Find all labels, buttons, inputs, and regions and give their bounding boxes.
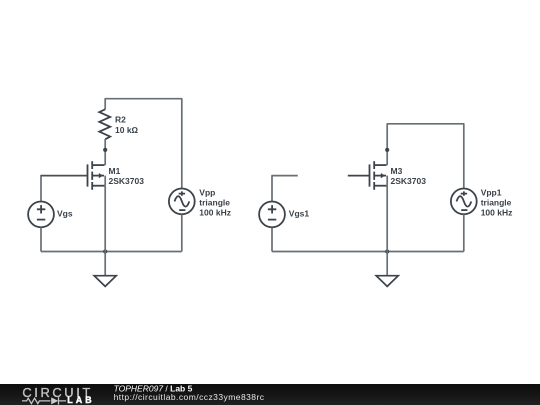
node dot on M1 drain wire <box>103 148 107 152</box>
svg-text:Vgs1: Vgs1 <box>289 208 310 218</box>
footer bar <box>0 384 540 405</box>
voltage source Vgs1 <box>259 202 309 228</box>
node dot on M3 drain wire <box>385 148 389 152</box>
svg-text:10 kΩ: 10 kΩ <box>115 125 139 135</box>
svg-text:http://circuitlab.com/ccz33yme: http://circuitlab.com/ccz33yme838rc <box>114 392 265 402</box>
svg-text:triangle: triangle <box>481 197 512 207</box>
transistor M1 2SK3703 <box>88 161 145 190</box>
wire: M1 source to rail <box>104 186 106 252</box>
voltage source Vpp triangle 100 kHz <box>169 187 231 217</box>
svg-text:100 kHz: 100 kHz <box>199 207 231 217</box>
svg-text:100 kHz: 100 kHz <box>481 207 513 217</box>
CircuitLab logo <box>22 385 95 405</box>
node dot at left ground junction <box>103 249 107 253</box>
svg-text:M3: M3 <box>391 166 403 176</box>
wire: right bottom rail <box>272 251 464 253</box>
svg-text:triangle: triangle <box>199 197 230 207</box>
voltage source Vgs <box>28 202 73 228</box>
wire: left bottom rail <box>41 251 182 253</box>
svg-text:Vgs: Vgs <box>57 208 73 218</box>
ground symbol left <box>94 276 116 287</box>
ground symbol right <box>376 276 398 287</box>
wire: R2 top lead to top rail to Vpp top lead <box>105 99 182 189</box>
wire: M3 source to rail <box>386 186 388 252</box>
voltage source Vpp1 triangle 100 kHz <box>451 187 512 217</box>
wire: Vpp bottom to rail <box>181 214 183 251</box>
wire: gate of M1 to Vgs top <box>40 175 42 202</box>
svg-text:Vpp1: Vpp1 <box>481 187 502 197</box>
svg-text:M1: M1 <box>109 166 121 176</box>
wire: left ground stem <box>104 252 106 276</box>
wire: M3 drain up, top rail, Vpp1 top lead <box>387 124 464 189</box>
svg-text:Vpp: Vpp <box>199 187 215 197</box>
wire: right ground stem <box>386 252 388 276</box>
svg-text:LAB: LAB <box>67 395 94 405</box>
wire: Vpp1 bottom to rail <box>463 214 465 251</box>
svg-text:2SK3703: 2SK3703 <box>109 176 145 186</box>
svg-text:2SK3703: 2SK3703 <box>391 176 427 186</box>
resistor R2 <box>99 109 138 139</box>
wire: Vgs1 stub (unconnected) <box>272 176 298 202</box>
wire: Vgs bottom to rail <box>40 227 42 251</box>
node dot at right ground junction <box>385 249 389 253</box>
transistor M3 2SK3703 <box>348 161 426 190</box>
wire: R2 bottom to M1 drain <box>104 139 106 165</box>
svg-text:R2: R2 <box>115 115 126 125</box>
wire: Vgs1 bottom to rail <box>271 227 273 251</box>
